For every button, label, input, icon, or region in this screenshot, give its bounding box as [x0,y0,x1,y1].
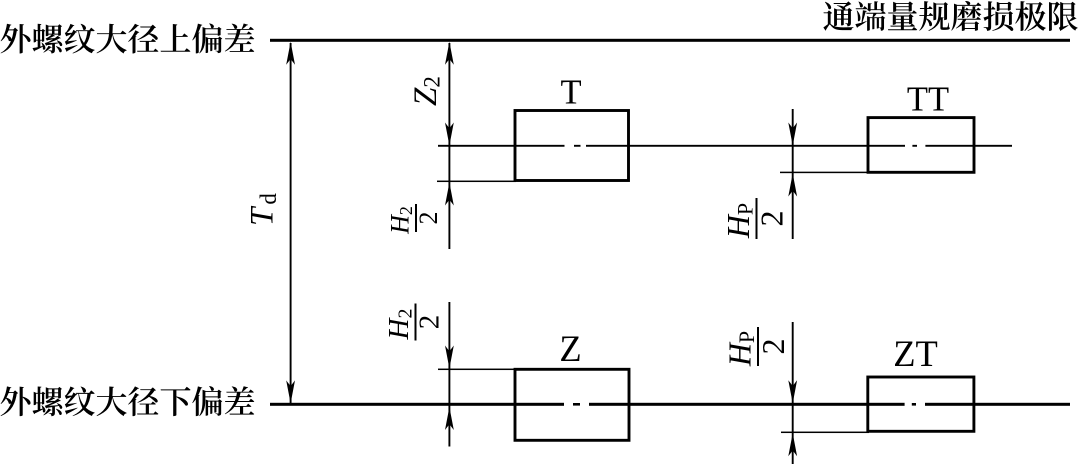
box TT (GO gauge wear tolerance) [868,118,974,173]
svg-text:T: T [560,74,581,112]
label H2/2 lower [383,304,446,341]
box Z (NOT-GO gauge tolerance) [515,369,629,440]
dimension line H2/2 (lower-left column) [448,302,450,447]
label: upper deviation of external thread major diameter [1,23,255,53]
extension line at Z box top [438,369,516,371]
extension line at T box bottom [437,181,516,183]
box T (GO gauge manufacturing tolerance) [515,111,629,181]
svg-text:ZT: ZT [893,333,938,374]
label H2/2 upper [386,204,444,235]
top boundary line (GO gauge wear limit) [270,39,1070,42]
label HP/2 lower [722,327,792,367]
svg-text:2: 2 [414,212,443,225]
svg-text:TT: TT [907,81,949,119]
svg-text:2: 2 [414,315,446,330]
centerline through T and TT boxes [438,145,565,147]
label Z2 [408,76,445,106]
extension line at TT box bottom [780,172,869,174]
extension line at ZT box bottom [781,432,869,434]
svg-text:Z: Z [559,328,581,369]
label: lower deviation of external thread major diameter [1,386,255,416]
label: GO gauge wear limit [823,1,1077,31]
bottom boundary line (lower deviation) with centerline breaks inside Z and ZT [270,403,564,406]
svg-text:2: 2 [755,339,791,355]
svg-text:2: 2 [754,211,790,227]
dimension line Z2 with upper H2/2 arrows [448,43,450,249]
label HP/2 upper [720,198,790,239]
dimension line HP/2 (upper-right column) [792,109,794,239]
label Td [245,193,282,226]
dimension line HP/2 (lower-right column) [792,322,794,464]
dimension line Td [290,43,292,403]
box ZT [868,377,974,431]
